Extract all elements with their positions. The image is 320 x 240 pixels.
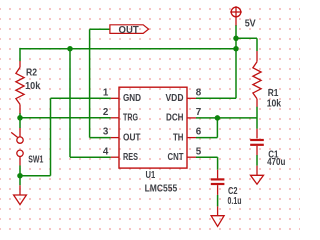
wire R2 bottom to TRG junction <box>19 113 21 128</box>
svg-text:2: 2 <box>103 107 109 118</box>
wire R1 branch horizontal <box>236 37 257 39</box>
svg-text:0.1u: 0.1u <box>228 196 242 207</box>
svg-text:5V: 5V <box>245 19 256 30</box>
pin 7 stub <box>187 117 196 119</box>
junction 5V/rail <box>233 46 239 52</box>
svg-text:LMC555: LMC555 <box>145 183 178 194</box>
svg-text:VDD: VDD <box>166 93 184 104</box>
ground below C2 <box>211 206 224 226</box>
svg-text:OUT: OUT <box>123 132 141 143</box>
pin 4 stub <box>111 156 119 158</box>
capacitor C2 <box>211 170 225 195</box>
junction DCH/TH <box>215 115 221 121</box>
wire CNT pin5 horizontal <box>196 156 218 158</box>
resistor R2 <box>16 61 24 114</box>
pin 6 stub <box>187 137 196 139</box>
wire SW1 to GND-net horizontal <box>20 175 51 177</box>
wire VDD pin8 horizontal <box>196 97 236 99</box>
svg-text:TRG: TRG <box>123 113 138 124</box>
svg-text:1: 1 <box>103 87 109 98</box>
svg-text:4: 4 <box>103 146 109 157</box>
wire GND-net vertical <box>50 98 52 175</box>
wire R1 top vertical <box>256 38 258 51</box>
svg-text:OUT: OUT <box>119 25 140 36</box>
wire RES vertical <box>69 49 71 158</box>
wire 5V top rail <box>20 48 236 50</box>
pin 2 stub <box>111 117 119 119</box>
wire TH branch vertical <box>216 118 218 138</box>
wire OUT flag horizontal <box>90 28 110 30</box>
wire DCH pin7 horizontal <box>196 117 257 119</box>
junction 5V/R1 <box>233 36 239 42</box>
wire OUT vertical <box>89 29 91 137</box>
wire R2 top lead vertical <box>19 48 21 61</box>
svg-text:SW1: SW1 <box>28 154 43 165</box>
svg-text:GND: GND <box>123 93 141 104</box>
wire 5V vertical <box>235 25 237 98</box>
svg-text:CNT: CNT <box>168 152 185 163</box>
net flag OUT <box>110 25 149 34</box>
pin 3 stub <box>111 137 119 139</box>
pin 8 stub <box>187 97 196 99</box>
IC U1 LMC555 body <box>119 87 187 168</box>
ground below SW1 <box>14 185 27 204</box>
pin 5 stub <box>187 156 196 158</box>
wire CNT to C2 vertical <box>217 157 219 170</box>
wire C1 to ground vertical <box>256 155 258 166</box>
wire TH pin6 horizontal <box>196 137 217 139</box>
wire GND pin1 horizontal <box>51 97 111 99</box>
svg-text:U1: U1 <box>146 170 156 181</box>
junction rail/RES <box>67 46 73 52</box>
svg-text:DCH: DCH <box>166 113 184 124</box>
wire SW1 bottom vertical <box>19 165 21 185</box>
capacitor C1 <box>250 129 264 155</box>
svg-text:6: 6 <box>196 127 202 138</box>
pin 1 stub <box>111 97 119 99</box>
svg-text:10k: 10k <box>267 98 282 109</box>
svg-text:3: 3 <box>103 127 109 138</box>
svg-text:470u: 470u <box>267 157 285 168</box>
resistor R1 <box>253 51 261 107</box>
svg-text:8: 8 <box>196 87 202 98</box>
svg-text:10k: 10k <box>25 81 40 92</box>
wire C2 to ground vertical <box>217 195 219 207</box>
wire RES pin4 horizontal <box>70 156 111 158</box>
power symbol 5V <box>230 6 242 25</box>
wire OUT pin3 horizontal <box>90 137 111 139</box>
svg-text:R2: R2 <box>26 68 37 79</box>
wire TRG net horizontal <box>20 117 111 119</box>
switch SW1 <box>11 128 23 165</box>
svg-text:TH: TH <box>173 132 184 143</box>
svg-text:7: 7 <box>196 107 202 118</box>
junction SW1 bottom <box>17 173 23 179</box>
svg-text:5: 5 <box>196 146 202 157</box>
junction R2/TRG/SW1 <box>17 115 23 121</box>
ground below C1 <box>251 166 264 185</box>
svg-text:RES: RES <box>123 152 138 163</box>
wire R1 to C1 vertical <box>256 107 258 129</box>
